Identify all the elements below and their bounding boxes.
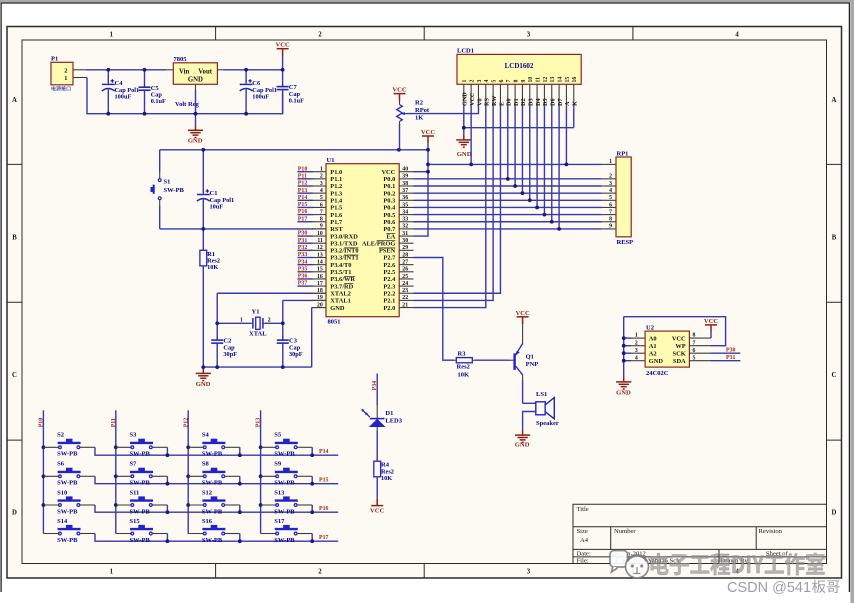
svg-text:100uF: 100uF (115, 94, 132, 101)
svg-text:P15: P15 (298, 202, 308, 208)
op-amp U1 8051 MCU body (326, 164, 399, 317)
svg-text:0.1uF: 0.1uF (289, 98, 304, 105)
LCD1 pin 7 (507, 84, 509, 106)
svg-text:P11: P11 (298, 173, 307, 179)
wire net label P11 (298, 178, 313, 180)
wire net label P16 (298, 214, 313, 216)
svg-text:Res2: Res2 (457, 364, 470, 371)
svg-text:8: 8 (693, 333, 696, 339)
wire P0.5 bus row (414, 214, 602, 216)
potentiometer R2 RPot (394, 94, 406, 101)
svg-text:SW-PB: SW-PB (57, 537, 78, 544)
wire LCD A down (565, 106, 567, 165)
switch S15 SW-PB (116, 533, 132, 535)
svg-text:P2.4: P2.4 (383, 276, 396, 283)
U1 pin 23 stub (399, 292, 413, 294)
wire row net P17 (95, 534, 338, 542)
lcd connector LCD1 (457, 54, 581, 84)
svg-text:CSDN @541: CSDN @541 (727, 580, 811, 596)
svg-text:RW: RW (491, 95, 498, 106)
svg-text:36: 36 (402, 195, 408, 201)
svg-text:13: 13 (550, 77, 556, 83)
wire U2 address common (623, 317, 625, 377)
svg-text:P2.7: P2.7 (383, 255, 396, 262)
wire switch drop (311, 505, 313, 512)
node D2 junction (521, 191, 525, 195)
svg-text:2: 2 (635, 340, 638, 346)
svg-text:8: 8 (320, 217, 323, 223)
wire P1 pin1 down and bottom rail (73, 77, 87, 79)
svg-text:9: 9 (320, 224, 323, 230)
svg-text:U2: U2 (646, 324, 654, 331)
U1 pin 33 stub (399, 221, 413, 223)
svg-text:S1: S1 (164, 178, 171, 185)
svg-text:S13: S13 (274, 489, 285, 496)
svg-text:P0.2: P0.2 (383, 190, 395, 197)
U1 pin 29 stub (399, 249, 413, 251)
ground below 7805 (188, 125, 203, 137)
svg-text:Size: Size (577, 528, 588, 535)
svg-text:P16: P16 (319, 506, 329, 512)
speaker LS1 (536, 398, 555, 419)
svg-text:B: B (12, 234, 17, 241)
wire LCD D6 to P0.6 (551, 106, 553, 222)
capacitor C3 (282, 323, 284, 339)
node rail junction (166, 510, 170, 514)
svg-text:30: 30 (402, 238, 408, 244)
svg-text:1: 1 (64, 75, 67, 82)
svg-text:30pF: 30pF (223, 351, 237, 358)
node rail junction (310, 539, 314, 543)
svg-text:2: 2 (609, 174, 612, 180)
svg-text:C6: C6 (252, 80, 261, 87)
svg-text:P10: P10 (39, 418, 45, 428)
wire SCK net P30 (711, 352, 740, 354)
svg-text:11: 11 (317, 238, 323, 244)
switch S4 SW-PB (186, 445, 190, 449)
svg-text:10: 10 (528, 77, 534, 83)
svg-text:D1: D1 (513, 98, 520, 106)
svg-text:SW-PB: SW-PB (57, 451, 78, 458)
svg-text:P15: P15 (319, 478, 329, 484)
svg-text:39: 39 (402, 174, 408, 180)
svg-text:A0: A0 (649, 335, 657, 342)
svg-text:P0.1: P0.1 (383, 183, 395, 190)
node rail junction (238, 510, 242, 514)
wire LCD VCC down (470, 106, 472, 165)
U2 pin 3 (630, 352, 645, 354)
capacitor C2 (216, 323, 218, 339)
svg-text:S4: S4 (202, 432, 210, 439)
svg-text:P33: P33 (298, 252, 308, 258)
wire switch drop (311, 476, 313, 483)
wire 7805 GND down (195, 84, 197, 91)
U1 pin 27 stub (399, 264, 413, 266)
svg-text:SW-PB: SW-PB (202, 508, 223, 515)
U1 pin 38 stub (399, 185, 413, 187)
svg-text:33: 33 (402, 217, 408, 223)
svg-text:S17: S17 (274, 518, 285, 525)
svg-text:GND: GND (457, 151, 472, 158)
node rail junction (310, 453, 314, 457)
U1 pin 30 stub (399, 242, 413, 244)
svg-text:S10: S10 (57, 489, 67, 496)
U1 pin 14 stub (312, 264, 326, 266)
wire P1 pin2 to 7805 Vin (73, 69, 87, 71)
U1 pin 28 stub (399, 257, 413, 259)
svg-text:SW-PB: SW-PB (130, 537, 151, 544)
svg-text:SCK: SCK (673, 350, 686, 357)
wire net label P33 (298, 257, 313, 259)
svg-text:R2: R2 (415, 100, 423, 107)
wire speaker to ground (523, 412, 536, 431)
svg-text:P2.5: P2.5 (383, 269, 395, 276)
svg-text:SW-PB: SW-PB (202, 480, 223, 487)
wire column net P11 (115, 410, 117, 533)
svg-text:3: 3 (320, 181, 323, 187)
ground below LCD (456, 135, 471, 147)
svg-text:RST: RST (330, 226, 343, 233)
svg-text:P31: P31 (298, 238, 308, 244)
wire net label P10 (298, 171, 313, 173)
wire crystal ground rail (203, 366, 311, 368)
watermark text (651, 553, 825, 575)
U1 pin 19 stub (312, 299, 326, 301)
svg-text:7: 7 (506, 80, 512, 83)
svg-text:S9: S9 (274, 461, 282, 468)
svg-text:Revision: Revision (759, 528, 783, 535)
node D5 junction (543, 213, 547, 217)
svg-text:A4: A4 (580, 537, 589, 544)
svg-text:25: 25 (402, 274, 408, 280)
svg-text:C: C (12, 372, 17, 379)
power VCC U2 (705, 325, 717, 332)
svg-text:5: 5 (609, 195, 612, 201)
wire net label P30 (298, 235, 313, 237)
svg-text:P3.2/INT0: P3.2/INT0 (330, 248, 358, 255)
wire P0.7 bus row (414, 228, 602, 230)
wire Q1 collector to speaker (522, 375, 524, 382)
svg-text:P3.0/RXD: P3.0/RXD (330, 233, 358, 240)
LCD1 pin 13 (551, 84, 553, 106)
junction dots crystal (215, 321, 219, 325)
svg-text:GND: GND (515, 442, 530, 449)
U1 pin 18 stub (312, 292, 326, 294)
node rail junction (166, 453, 170, 457)
svg-text:File:: File: (577, 558, 589, 565)
power VCC above EA column (422, 136, 434, 143)
svg-text:S12: S12 (202, 489, 212, 496)
svg-text:11: 11 (536, 77, 542, 83)
U1 pin 34 stub (399, 214, 413, 216)
U1 pin 4 stub (312, 192, 326, 194)
svg-text:S16: S16 (202, 518, 213, 525)
svg-text:7805: 7805 (174, 56, 188, 63)
svg-text:D1: D1 (385, 410, 393, 417)
svg-text:S14: S14 (57, 518, 68, 525)
svg-text:EA: EA (386, 233, 395, 240)
svg-text:C1: C1 (210, 190, 218, 197)
wire 7805 Vout rail (217, 69, 224, 71)
svg-text:VCC: VCC (469, 93, 476, 106)
svg-text:4: 4 (635, 355, 638, 361)
wire switch drop (239, 476, 241, 483)
U1 pin 31 stub (399, 235, 413, 237)
svg-text:24C02C: 24C02C (646, 370, 669, 377)
LCD1 pin 3 (477, 84, 479, 106)
wire net label P34 (298, 264, 313, 266)
switch S1 (159, 150, 161, 172)
svg-text:P17: P17 (319, 535, 329, 541)
wire LCD D1 to P0.1 (514, 106, 516, 186)
svg-text:38: 38 (402, 181, 408, 187)
svg-text:GND: GND (188, 77, 203, 84)
svg-text:P3.3/INT1: P3.3/INT1 (330, 255, 358, 262)
U1 pin 26 stub (399, 271, 413, 273)
svg-text:P0.6: P0.6 (383, 219, 396, 226)
U1 pin 16 stub (312, 278, 326, 280)
svg-text:4: 4 (320, 188, 323, 194)
U1 pin 6 stub (312, 206, 326, 208)
U2 pin 6 (689, 352, 711, 354)
svg-text:3: 3 (527, 31, 531, 38)
svg-text:21: 21 (402, 302, 408, 308)
svg-text:P1.6: P1.6 (330, 212, 343, 219)
U1 pin 39 stub (399, 178, 413, 180)
svg-text:SW-PB: SW-PB (202, 451, 223, 458)
svg-text:A1: A1 (649, 343, 657, 350)
watermark logo (610, 551, 649, 579)
svg-text:3: 3 (527, 568, 531, 575)
U1 pin 5 stub (312, 199, 326, 201)
svg-text:1: 1 (110, 568, 114, 575)
svg-text:S8: S8 (202, 461, 210, 468)
svg-text:P13: P13 (256, 418, 262, 428)
svg-text:1: 1 (240, 317, 243, 323)
svg-text:LCD1: LCD1 (457, 48, 474, 55)
U1 pin 9 stub (312, 228, 326, 230)
svg-text:10K: 10K (381, 475, 392, 482)
node rail junction (310, 482, 314, 486)
svg-text:GND: GND (196, 381, 211, 388)
switch S11 SW-PB (114, 503, 118, 507)
svg-text:P1.7: P1.7 (330, 219, 343, 226)
wire P0.6 bus row (414, 221, 602, 223)
wire LCD D2 to P0.2 (521, 106, 523, 193)
svg-text:XTAL: XTAL (249, 331, 267, 338)
resistor pack RP1 (616, 157, 631, 237)
wire net label P32 (298, 249, 313, 251)
LCD1 pin 6 (499, 84, 501, 106)
svg-text:SW-PB: SW-PB (202, 537, 223, 544)
ground speaker (515, 430, 530, 442)
wire net label P15 (298, 206, 313, 208)
svg-text:SW-PB: SW-PB (274, 480, 295, 487)
U1 pin 24 stub (399, 285, 413, 287)
node D4 junction (535, 206, 539, 210)
svg-text:GND: GND (462, 92, 469, 106)
svg-text:15: 15 (565, 77, 571, 83)
svg-text:1: 1 (609, 159, 612, 165)
svg-text:13: 13 (317, 252, 323, 258)
svg-text:32: 32 (402, 224, 408, 230)
wire LCD D3 to P0.3 (529, 106, 531, 201)
wire VCC column to EA (414, 143, 429, 236)
svg-text:P14: P14 (298, 195, 308, 201)
wire XTAL2 to Y1 (217, 292, 313, 294)
wire switch drop (166, 534, 168, 542)
wire switch drop (311, 447, 313, 455)
switch S17 SW-PB (261, 533, 277, 535)
svg-text:P34: P34 (372, 381, 378, 391)
svg-text:23: 23 (402, 288, 408, 294)
LCD1 pin 14 (558, 84, 560, 106)
svg-text:GND: GND (330, 305, 345, 312)
svg-text:LS1: LS1 (536, 391, 547, 398)
label dianyuan jiekou (52, 86, 71, 91)
svg-text:P13: P13 (298, 188, 308, 194)
U1 pin 13 stub (312, 257, 326, 259)
switch S6 SW-PB (42, 474, 46, 478)
svg-text:35: 35 (402, 202, 408, 208)
LCD1 pin 9 (521, 84, 523, 106)
svg-text:VCC: VCC (672, 335, 686, 342)
wire VCC rail to RP1 (428, 163, 602, 165)
U1 pin 3 stub (312, 185, 326, 187)
U1 pin 15 stub (312, 271, 326, 273)
svg-text:2: 2 (268, 317, 271, 323)
U1 pin 21 stub (399, 307, 413, 309)
svg-text:40: 40 (402, 167, 408, 173)
svg-text:6: 6 (693, 348, 696, 354)
wire LCD D0 to P0.0 (507, 106, 509, 179)
capacitor C7 (282, 70, 284, 86)
wire (107, 70, 109, 83)
svg-text:4: 4 (735, 31, 739, 38)
svg-text:15: 15 (317, 267, 323, 273)
U1 pin 2 stub (312, 178, 326, 180)
svg-text:8: 8 (609, 217, 612, 223)
node D1 junction (513, 184, 517, 188)
svg-text:XTAL1: XTAL1 (330, 298, 350, 305)
power VCC top (282, 56, 284, 70)
svg-text:7: 7 (609, 209, 612, 215)
svg-text:LCD1602: LCD1602 (505, 62, 534, 70)
wire (202, 150, 204, 193)
svg-text:D6: D6 (550, 98, 557, 106)
svg-text:12: 12 (543, 77, 549, 83)
wire net label P14 (298, 199, 313, 201)
wire P0.1 bus row (414, 185, 602, 187)
wire LCD RS to P2.0 (414, 106, 486, 308)
svg-text:P1.2: P1.2 (330, 183, 342, 190)
svg-text:P2.0: P2.0 (383, 305, 395, 312)
wire net label P36 (298, 278, 313, 280)
wire P2.7 to R3 (414, 258, 454, 361)
svg-text:27: 27 (402, 259, 408, 265)
svg-text:P3.5/T1: P3.5/T1 (330, 269, 351, 276)
svg-text:A: A (564, 101, 571, 106)
U1 pin 37 stub (399, 192, 413, 194)
wire LCD D4 to P0.4 (536, 106, 538, 208)
svg-text:2: 2 (470, 80, 476, 83)
svg-text:SDA: SDA (673, 358, 686, 365)
svg-text:14: 14 (317, 259, 323, 265)
svg-text:28: 28 (402, 252, 408, 258)
wire switch drop (239, 534, 241, 542)
svg-text:34: 34 (402, 209, 408, 215)
svg-text:SW-PB: SW-PB (274, 537, 295, 544)
svg-text:P34: P34 (298, 259, 308, 265)
svg-text:S5: S5 (274, 432, 282, 439)
svg-text:8051: 8051 (328, 319, 341, 326)
wire RST rail (160, 228, 313, 230)
svg-text:D: D (832, 509, 837, 516)
svg-text:14: 14 (557, 77, 563, 83)
node D0 junction (506, 177, 510, 181)
svg-text:37: 37 (402, 188, 408, 194)
LCD1 pin 10 (529, 84, 531, 106)
wire column net P13 (260, 410, 262, 533)
svg-text:1: 1 (110, 31, 114, 38)
svg-text:E: E (498, 102, 505, 106)
svg-text:6: 6 (499, 80, 505, 83)
svg-text:S3: S3 (130, 432, 138, 439)
svg-text:A: A (832, 97, 837, 104)
U1 pin 7 stub (312, 214, 326, 216)
svg-text:P0.0: P0.0 (383, 176, 395, 183)
eeprom U2 24C02C (645, 331, 689, 367)
svg-text:Vout: Vout (198, 69, 212, 76)
svg-text:10K: 10K (458, 371, 470, 378)
svg-text:P2.2: P2.2 (383, 290, 395, 297)
wire switch drop (166, 505, 168, 512)
U1 pin 36 stub (399, 199, 413, 201)
svg-text:K: K (572, 101, 579, 106)
wire switch drop (239, 447, 241, 455)
svg-text:5: 5 (320, 195, 323, 201)
LCD1 pin 1 (463, 84, 465, 106)
svg-text:ALE/PROG: ALE/PROG (362, 240, 395, 247)
svg-text:SW-PB: SW-PB (274, 508, 295, 515)
regulator U 7805 (173, 63, 217, 85)
wire GND pin20 down (312, 307, 326, 309)
svg-text:1: 1 (635, 333, 638, 339)
wire P0.3 bus row (414, 199, 602, 201)
wire (245, 70, 247, 83)
svg-text:2: 2 (318, 568, 322, 575)
wire LCD D7 to P0.7 (558, 106, 560, 229)
switch S3 SW-PB (114, 445, 118, 449)
svg-text:P3.1/TXD: P3.1/TXD (330, 240, 358, 247)
svg-text:12: 12 (317, 245, 323, 251)
svg-text:Q1: Q1 (526, 354, 534, 361)
LCD1 pin 15 (565, 84, 567, 106)
svg-text:P2.6: P2.6 (383, 262, 396, 269)
wire switch drop (239, 505, 241, 512)
svg-text:P0.4: P0.4 (383, 205, 396, 212)
svg-text:Speaker: Speaker (536, 420, 559, 427)
svg-text:3: 3 (635, 348, 638, 354)
wire SDA net P31 (711, 360, 740, 362)
svg-text:P1: P1 (51, 56, 58, 63)
svg-text:D: D (12, 509, 17, 516)
svg-text:P16: P16 (298, 209, 308, 215)
svg-text:30pF: 30pF (289, 351, 303, 358)
svg-text:5: 5 (492, 80, 498, 83)
svg-text:4: 4 (609, 188, 612, 194)
svg-text:16: 16 (317, 274, 323, 280)
